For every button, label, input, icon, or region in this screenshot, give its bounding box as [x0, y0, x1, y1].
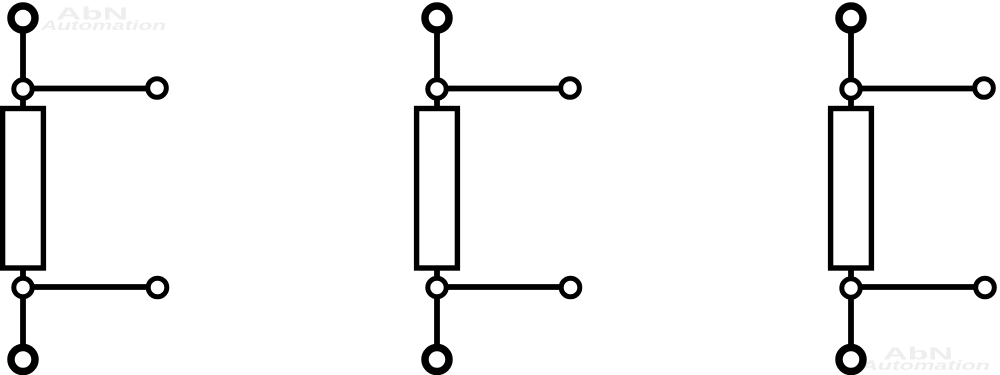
node: bottom junction: [428, 278, 446, 296]
wire: bottom horizontal branch to right terminal: [437, 284, 571, 290]
node: top junction: [842, 80, 860, 98]
terminal: bottom supply circle: [11, 348, 35, 372]
wire: vertical from fuse body to bottom terminal circle: [848, 268, 854, 360]
wire: vertical from fuse body to bottom terminal circle: [20, 268, 26, 360]
watermark AbN Automation top-left: [39, 4, 166, 34]
wire: vertical from top terminal circle to fuse body F2: [434, 18, 440, 108]
svg-text:Automation: Automation: [859, 358, 990, 373]
terminal: top supply circle: [11, 6, 35, 30]
node: bottom junction: [842, 279, 860, 297]
fuse body F2 (rectangle): [417, 109, 458, 269]
terminal: bottom right pin: [148, 278, 167, 297]
svg-text:Automation: Automation: [39, 18, 166, 33]
terminal: top supply circle: [839, 6, 863, 30]
wire: top horizontal branch to right terminal: [437, 86, 570, 92]
wire: bottom horizontal branch to right terminal: [851, 284, 985, 290]
terminal: top supply circle: [425, 6, 449, 30]
terminal: bottom right pin: [561, 278, 580, 297]
terminal: top right pin: [975, 79, 994, 98]
wire: vertical from top terminal circle to fuse body F1: [20, 18, 26, 108]
wire: top horizontal branch to right terminal: [23, 86, 157, 92]
node: top junction: [14, 80, 32, 98]
watermark AbN Automation bottom-right: [859, 344, 990, 374]
wire: bottom horizontal branch to right terminal: [23, 284, 158, 290]
fuse body F3 (rectangle): [831, 109, 872, 269]
terminal: bottom supply circle: [425, 348, 449, 372]
wire: top horizontal branch to right terminal: [851, 86, 984, 92]
terminal: bottom right pin: [976, 278, 995, 297]
fuse body F1 (rectangle): [3, 109, 44, 269]
wire: vertical from top terminal circle to fuse body F3: [848, 18, 854, 108]
terminal: top right pin: [561, 79, 580, 98]
wire: vertical from fuse body to bottom terminal circle: [434, 268, 440, 360]
node: top junction: [428, 80, 446, 98]
terminal: top right pin: [148, 79, 167, 98]
terminal: bottom supply circle: [839, 348, 863, 372]
node: bottom junction: [14, 278, 32, 296]
